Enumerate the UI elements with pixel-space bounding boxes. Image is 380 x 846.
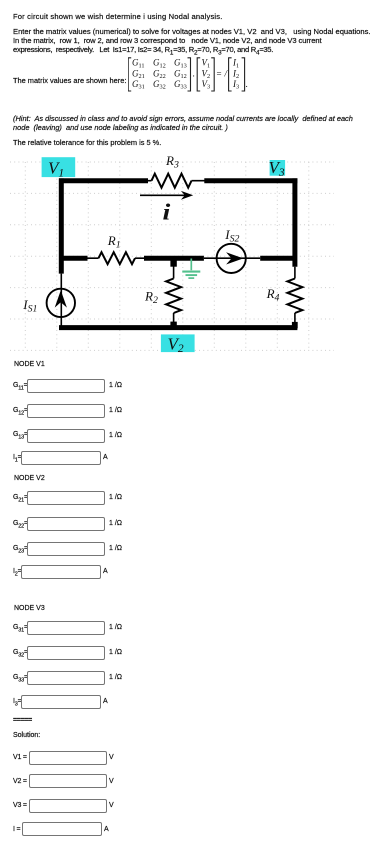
- resistor R2: [166, 279, 181, 314]
- current arrow i: [140, 191, 193, 200]
- svg-text:I3: I3: [232, 79, 239, 91]
- node V2 highlight: [161, 334, 195, 355]
- wire: left rail thick: [59, 178, 64, 273]
- svg-text:IS1: IS1: [22, 297, 37, 315]
- NODE V3: [14, 605, 45, 613]
- wire: left rail thin through IS1: [60, 274, 62, 326]
- wire: R2 branch: [173, 260, 175, 323]
- svg-text:V3: V3: [202, 79, 211, 91]
- svg-text:G32: G32: [153, 79, 166, 91]
- svg-text:.: .: [193, 68, 195, 78]
- svg-text:=: =: [217, 68, 222, 78]
- junction node V2 branch top: [170, 261, 176, 267]
- matrix equation: [13, 77, 126, 85]
- wire: right rail thick: [292, 178, 297, 266]
- svg-text:/: /: [224, 68, 229, 78]
- circuit schematic: [0, 150, 352, 362]
- hint: [13, 115, 353, 123]
- wire: right rail thin stubs of R4: [294, 267, 296, 326]
- svg-text:IS2: IS2: [224, 227, 239, 245]
- wire: middle rail thin segments: [88, 257, 261, 259]
- wire: thin stubs of R3: [146, 180, 205, 182]
- svg-text:R2: R2: [144, 289, 158, 307]
- wire: bottom rail: [59, 325, 297, 330]
- svg-text:.: .: [246, 79, 248, 89]
- junction bottom-right corner: [292, 322, 298, 328]
- NODE V1: [14, 361, 45, 369]
- svg-text:i: i: [163, 199, 172, 225]
- node V1 highlight: [42, 157, 76, 179]
- separator + solution: [13, 717, 32, 725]
- NODE V2: [14, 475, 45, 483]
- svg-text:G33: G33: [174, 79, 187, 91]
- svg-text:R1: R1: [107, 233, 121, 251]
- grid dots: [10, 162, 334, 350]
- current source IS2: [217, 244, 246, 273]
- node V3 highlight: [269, 158, 286, 179]
- wire: top rail V1 to V3: [59, 178, 297, 183]
- matrix image: [128, 56, 253, 92]
- svg-text:R3: R3: [165, 153, 179, 171]
- current source IS1: [47, 289, 75, 317]
- ground: [182, 259, 200, 279]
- resistor R1: [99, 252, 136, 264]
- svg-text:G31: G31: [132, 79, 145, 91]
- resistor R3: [152, 174, 192, 188]
- wire: middle rail thick segments: [59, 256, 295, 261]
- intro text: [13, 13, 223, 21]
- resistor R4: [287, 279, 302, 314]
- junction node V2 branch bottom: [170, 322, 176, 328]
